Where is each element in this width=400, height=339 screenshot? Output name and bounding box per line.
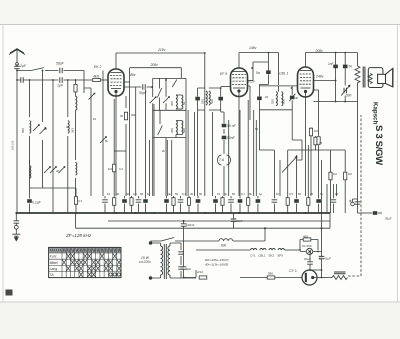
svg-text:ca 220v: ca 220v bbox=[139, 260, 151, 264]
svg-text:2µF: 2µF bbox=[19, 64, 27, 68]
svg-text:50 nF: 50 nF bbox=[227, 124, 237, 128]
svg-text:0,5: 0,5 bbox=[289, 192, 293, 196]
svg-text:520: 520 bbox=[200, 99, 204, 104]
svg-text:1µ: 1µ bbox=[259, 192, 263, 196]
svg-text:Kapsch: Kapsch bbox=[372, 102, 379, 125]
svg-text:5k: 5k bbox=[105, 139, 109, 143]
svg-text:0,1: 0,1 bbox=[133, 192, 137, 196]
svg-text:4µ: 4µ bbox=[224, 192, 228, 196]
svg-text:248v: 248v bbox=[315, 75, 324, 79]
svg-text:EK2: EK2 bbox=[269, 254, 275, 258]
svg-text:520: 520 bbox=[182, 128, 186, 133]
svg-text:1µ: 1µ bbox=[147, 192, 151, 196]
svg-text:50: 50 bbox=[140, 192, 144, 196]
svg-text:50: 50 bbox=[255, 127, 259, 131]
svg-text:TA: TA bbox=[50, 273, 55, 277]
svg-text:2k: 2k bbox=[162, 149, 166, 153]
svg-text:5k: 5k bbox=[249, 192, 253, 196]
svg-text:KL 83A: KL 83A bbox=[302, 244, 312, 248]
svg-text:500: 500 bbox=[346, 94, 352, 98]
svg-text:Kurz: Kurz bbox=[50, 255, 57, 259]
svg-text:0,1: 0,1 bbox=[182, 192, 186, 196]
svg-text:75: 75 bbox=[319, 141, 323, 145]
svg-text:50pF: 50pF bbox=[139, 91, 148, 95]
svg-text:30: 30 bbox=[120, 114, 124, 118]
svg-text:50pF: 50pF bbox=[56, 62, 65, 66]
svg-text:208v: 208v bbox=[150, 63, 159, 67]
svg-text:208v: 208v bbox=[315, 49, 324, 53]
svg-text:1M: 1M bbox=[348, 172, 353, 176]
svg-text:EF9: EF9 bbox=[278, 254, 284, 258]
svg-text:30µF: 30µF bbox=[385, 217, 392, 221]
svg-text:ZF=128 kHz: ZF=128 kHz bbox=[65, 233, 92, 238]
svg-text:CY 1: CY 1 bbox=[289, 269, 297, 273]
svg-text:0,5-2,0: 0,5-2,0 bbox=[11, 140, 15, 150]
svg-text:5n: 5n bbox=[349, 65, 353, 69]
svg-text:980: 980 bbox=[268, 272, 273, 276]
svg-text:CBL1: CBL1 bbox=[258, 254, 266, 258]
svg-text:000: 000 bbox=[282, 99, 286, 104]
svg-text:0,1µF: 0,1µF bbox=[32, 201, 42, 205]
svg-text:30: 30 bbox=[116, 192, 120, 196]
svg-text:1µF: 1µF bbox=[57, 84, 64, 88]
svg-text:30: 30 bbox=[44, 127, 48, 131]
svg-text:10: 10 bbox=[276, 192, 280, 196]
svg-text:20nF: 20nF bbox=[237, 219, 244, 223]
svg-text:40: 40 bbox=[190, 192, 194, 196]
svg-text:465: 465 bbox=[303, 235, 308, 239]
svg-text:Mittel: Mittel bbox=[50, 261, 58, 265]
svg-text:25: 25 bbox=[310, 192, 314, 196]
svg-text:10: 10 bbox=[217, 192, 221, 196]
svg-text:2/14: 2/14 bbox=[196, 270, 203, 274]
svg-text:50: 50 bbox=[298, 192, 302, 196]
svg-text:20: 20 bbox=[56, 169, 60, 173]
svg-text:EK 2: EK 2 bbox=[94, 65, 101, 69]
svg-text:60v=105v~150(7): 60v=105v~150(7) bbox=[205, 258, 229, 262]
svg-text:88v: 88v bbox=[130, 73, 136, 77]
svg-text:600: 600 bbox=[221, 244, 227, 248]
svg-text:520: 520 bbox=[270, 99, 274, 104]
svg-text:EF 9: EF 9 bbox=[220, 72, 227, 76]
svg-text:1M: 1M bbox=[314, 129, 319, 133]
svg-text:S 3 S/GW: S 3 S/GW bbox=[373, 125, 384, 166]
svg-text:500: 500 bbox=[21, 128, 25, 133]
svg-text:5µ: 5µ bbox=[320, 192, 324, 196]
svg-text:1M: 1M bbox=[108, 167, 113, 171]
svg-text:5µF: 5µF bbox=[186, 267, 191, 271]
svg-text:40v~115v~165(5): 40v~115v~165(5) bbox=[205, 263, 228, 267]
svg-text:148v: 148v bbox=[249, 46, 257, 50]
svg-text:300: 300 bbox=[170, 101, 174, 106]
svg-text:0,1: 0,1 bbox=[241, 192, 245, 196]
svg-text:38: 38 bbox=[66, 125, 70, 129]
svg-text:383: 383 bbox=[71, 128, 75, 133]
svg-text:CY1: CY1 bbox=[250, 254, 256, 258]
svg-text:7 A: 7 A bbox=[219, 158, 225, 162]
svg-text:10: 10 bbox=[107, 192, 111, 196]
svg-text:350: 350 bbox=[170, 128, 174, 133]
svg-text:10: 10 bbox=[93, 117, 97, 121]
svg-text:50: 50 bbox=[175, 192, 179, 196]
svg-text:218v: 218v bbox=[157, 48, 166, 52]
svg-text:10: 10 bbox=[335, 192, 339, 196]
svg-text:4kΩ: 4kΩ bbox=[93, 75, 100, 79]
svg-text:520: 520 bbox=[210, 99, 214, 104]
svg-text:50nF: 50nF bbox=[227, 136, 236, 140]
svg-text:46: 46 bbox=[295, 96, 299, 100]
svg-text:50: 50 bbox=[199, 192, 203, 196]
svg-text:20: 20 bbox=[265, 95, 269, 99]
svg-text:52: 52 bbox=[182, 101, 186, 105]
svg-text:100nF: 100nF bbox=[186, 223, 195, 227]
svg-text:0,3: 0,3 bbox=[119, 167, 123, 171]
svg-text:1M: 1M bbox=[333, 172, 338, 176]
svg-text:102v: 102v bbox=[248, 80, 256, 84]
svg-text:Lang: Lang bbox=[50, 267, 58, 271]
svg-text:5n: 5n bbox=[256, 71, 260, 75]
svg-text:4µ: 4µ bbox=[168, 192, 172, 196]
svg-text:50: 50 bbox=[232, 192, 236, 196]
svg-text:50: 50 bbox=[126, 192, 130, 196]
svg-text:0,3: 0,3 bbox=[78, 199, 82, 203]
svg-text:20k: 20k bbox=[131, 113, 136, 117]
svg-text:CBL 1: CBL 1 bbox=[279, 72, 288, 76]
